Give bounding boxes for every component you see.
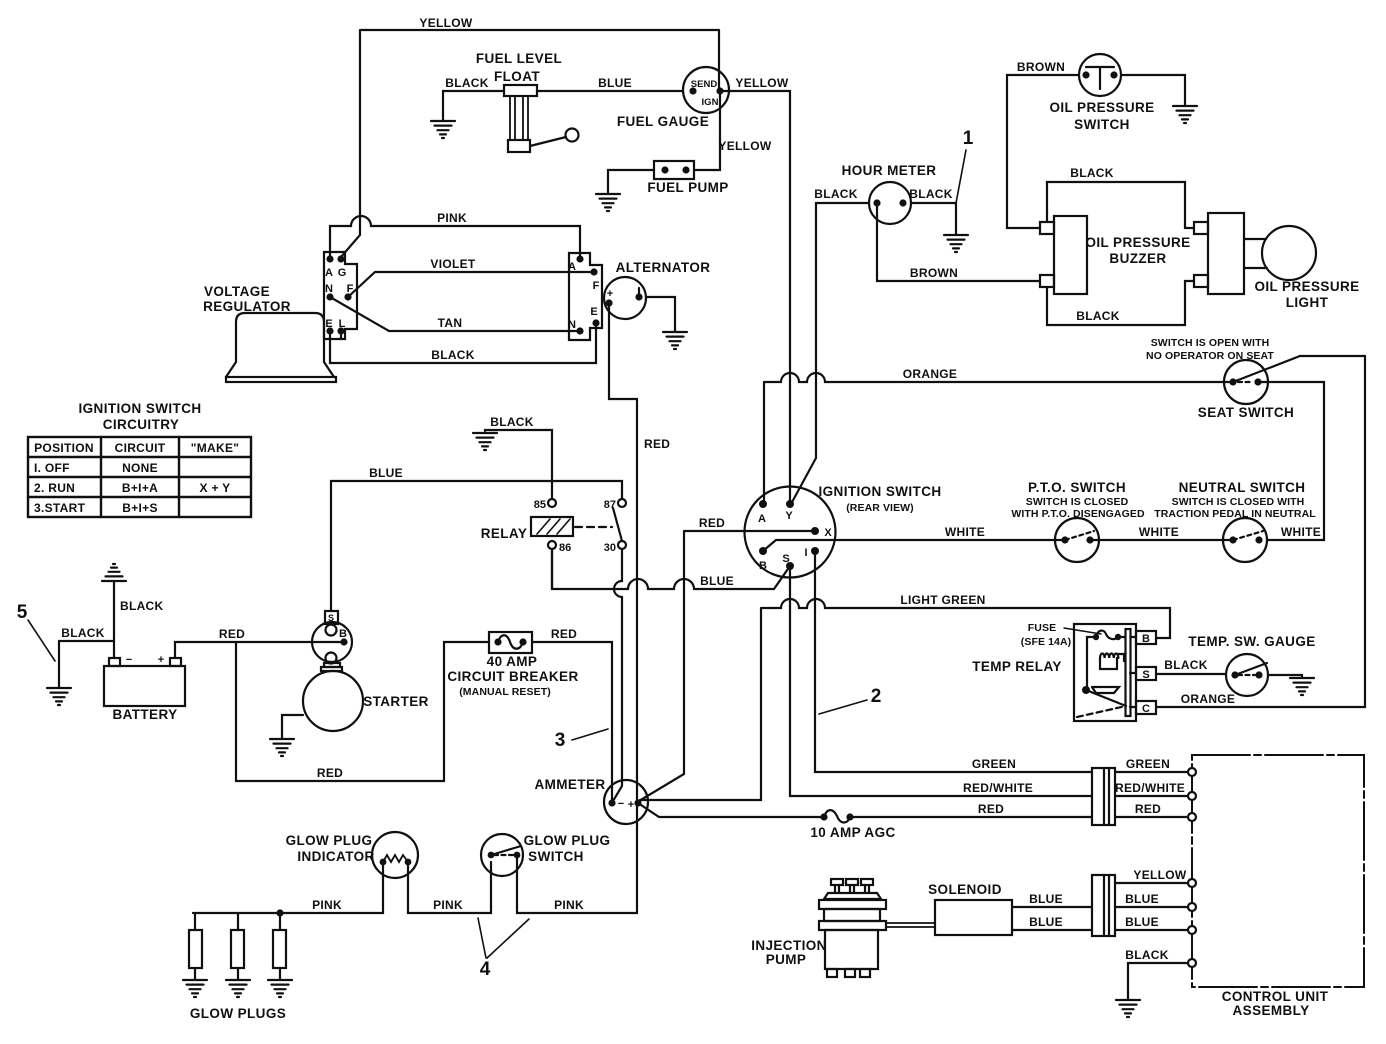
svg-text:STARTER: STARTER	[363, 694, 429, 709]
svg-text:FUEL PUMP: FUEL PUMP	[647, 180, 728, 195]
svg-text:TEMP. SW. GAUGE: TEMP. SW. GAUGE	[1188, 634, 1315, 649]
svg-text:L: L	[339, 318, 346, 330]
temp relay terminal B	[1136, 631, 1156, 644]
svg-text:BLUE: BLUE	[1125, 915, 1159, 929]
ground temp gauge	[1290, 678, 1314, 695]
svg-text:BLUE: BLUE	[1125, 892, 1159, 906]
temp relay coil	[1100, 654, 1124, 670]
relay terminal 30	[618, 541, 626, 549]
svg-text:RELAY: RELAY	[481, 526, 528, 541]
svg-text:S: S	[1142, 669, 1149, 681]
pin N regulator	[326, 293, 333, 300]
pin F regulator	[344, 293, 351, 300]
svg-text:30: 30	[604, 542, 616, 554]
svg-text:N: N	[325, 283, 333, 295]
svg-text:RED: RED	[551, 627, 577, 641]
relay dashed link	[575, 526, 612, 528]
wire BLACK control unit to ground	[1128, 963, 1188, 999]
svg-text:+: +	[158, 654, 164, 666]
fuse pointer	[1064, 628, 1101, 634]
svg-text:ORANGE: ORANGE	[903, 367, 957, 381]
callout 2 pointer	[819, 700, 867, 714]
wire GREEN ignition I to control unit	[815, 551, 1188, 772]
wire relay 86 to blue bus	[551, 549, 553, 589]
fuel gauge G1	[683, 67, 729, 113]
temp relay K2 body	[1074, 624, 1136, 721]
svg-text:BUZZER: BUZZER	[1109, 251, 1166, 266]
svg-text:PINK: PINK	[554, 898, 584, 912]
svg-text:FLOAT: FLOAT	[494, 69, 540, 84]
svg-text:5: 5	[17, 602, 28, 623]
svg-text:SWITCH: SWITCH	[1074, 117, 1130, 132]
control unit pin BLUE1	[1188, 903, 1196, 911]
ground battery negative	[102, 564, 126, 581]
svg-text:PINK: PINK	[312, 898, 342, 912]
ground hour meter switch	[944, 235, 968, 252]
temp relay C stub	[1130, 706, 1136, 708]
temp relay terminal S	[1136, 667, 1156, 680]
svg-text:VIOLET: VIOLET	[430, 257, 476, 271]
relay blade 87-30	[613, 508, 622, 541]
svg-text:BATTERY: BATTERY	[112, 707, 177, 722]
wire RED ammeter + to ignition X	[639, 531, 815, 801]
relay terminal 86	[548, 541, 556, 549]
wire RED ammeter to control unit with fuse	[638, 803, 1188, 817]
svg-text:WHITE: WHITE	[945, 525, 985, 539]
control unit pin RED	[1188, 813, 1196, 821]
wire BLUE float to fuel gauge	[537, 90, 683, 92]
pin A alternator	[576, 255, 583, 262]
svg-text:3: 3	[555, 730, 566, 751]
circuit breaker CB1	[489, 632, 532, 653]
svg-text:WHITE: WHITE	[1281, 525, 1321, 539]
wire BLACK battery negative to ground	[59, 582, 114, 658]
svg-text:FUEL LEVEL: FUEL LEVEL	[476, 51, 562, 66]
svg-text:CIRCUIT: CIRCUIT	[115, 441, 166, 455]
pin A ignition	[759, 500, 767, 508]
glow plug switch S2	[481, 834, 523, 876]
svg-text:CONTROL UNIT: CONTROL UNIT	[1222, 989, 1329, 1004]
fuel level float FL1	[504, 85, 579, 152]
svg-text:BROWN: BROWN	[910, 266, 958, 280]
svg-text:(MANUAL RESET): (MANUAL RESET)	[459, 686, 551, 698]
alternator connector body	[569, 253, 602, 340]
svg-text:A: A	[758, 513, 766, 525]
svg-text:YELLOW: YELLOW	[735, 76, 789, 90]
svg-text:+: +	[607, 288, 613, 300]
svg-text:B+I+A: B+I+A	[122, 481, 158, 495]
svg-text:SOLENOID: SOLENOID	[928, 882, 1002, 897]
ammeter M3	[604, 780, 648, 824]
wire BLUE relay 87 to starter S	[331, 481, 622, 611]
pin N alternator	[576, 327, 583, 334]
pin E regulator	[326, 327, 333, 334]
wire starter case to ground	[282, 715, 303, 738]
svg-text:−: −	[126, 654, 132, 666]
svg-text:BLUE: BLUE	[369, 466, 403, 480]
wire RED battery positive to starter B	[175, 642, 344, 658]
svg-text:TAN: TAN	[438, 316, 463, 330]
svg-text:GREEN: GREEN	[972, 757, 1016, 771]
wire relay 30 to ammeter minus	[613, 549, 622, 801]
svg-text:SWITCH IS CLOSED WITH: SWITCH IS CLOSED WITH	[1172, 496, 1305, 508]
wire BLACK float to ground	[443, 91, 504, 120]
svg-text:FUSE: FUSE	[1028, 622, 1056, 634]
connector J2	[1092, 875, 1115, 936]
temp relay fixed contact	[1092, 687, 1119, 693]
temp relay armature bar	[1126, 629, 1131, 716]
wire WHITE PTO to neutral switch	[1090, 539, 1233, 541]
temp sw gauge S8	[1226, 654, 1268, 696]
svg-text:ALTERNATOR: ALTERNATOR	[616, 260, 711, 275]
svg-text:GLOW PLUG: GLOW PLUG	[286, 833, 373, 848]
hour meter M1	[869, 182, 911, 224]
svg-text:2. RUN: 2. RUN	[34, 481, 75, 495]
svg-text:CIRCUITRY: CIRCUITRY	[103, 417, 180, 432]
pin F alternator	[590, 268, 597, 275]
svg-text:Y: Y	[785, 510, 793, 522]
wire YELLOW fuel gauge to fuel pump	[694, 91, 720, 170]
glow plug R1	[189, 930, 202, 979]
injection pump assembly	[819, 879, 886, 977]
wire fuel pump to ground	[608, 170, 654, 193]
pin E alternator	[592, 319, 599, 326]
wire RED feed loop to circuit breaker	[236, 642, 489, 781]
svg-text:E: E	[590, 306, 597, 318]
svg-text:RED/WHITE: RED/WHITE	[1115, 781, 1185, 795]
svg-text:BLACK: BLACK	[909, 187, 953, 201]
temp relay contact pivot	[1082, 686, 1090, 694]
wire RED breaker to ammeter minus	[532, 642, 612, 799]
svg-text:FUEL GAUGE: FUEL GAUGE	[617, 114, 709, 129]
wire WHITE ignition B to PTO switch	[763, 540, 1065, 551]
pin L regulator	[337, 327, 344, 334]
ground float	[431, 121, 455, 138]
svg-text:TEMP RELAY: TEMP RELAY	[972, 659, 1062, 674]
temp relay S stub	[1130, 672, 1136, 674]
callout 4 pointers	[478, 918, 529, 958]
ground relay 85	[473, 433, 497, 450]
svg-text:G: G	[338, 267, 347, 279]
svg-text:A: A	[325, 267, 333, 279]
fuel pump P1	[654, 161, 694, 179]
wire ORANGE temp relay C to seat switch blade	[1156, 356, 1365, 707]
wire BLACK relay 85 to ground	[485, 430, 552, 499]
svg-text:1: 1	[963, 128, 974, 149]
svg-text:BLUE: BLUE	[598, 76, 632, 90]
temp relay blade dashed	[1077, 706, 1126, 717]
glow plug indicator DS2	[372, 832, 418, 878]
svg-text:S: S	[782, 553, 789, 565]
svg-text:SWITCH IS OPEN WITH: SWITCH IS OPEN WITH	[1151, 337, 1270, 349]
svg-text:A: A	[568, 261, 576, 273]
svg-text:BLUE: BLUE	[700, 574, 734, 588]
wire temp gauge to ground	[1268, 675, 1302, 677]
svg-text:BLACK: BLACK	[61, 626, 105, 640]
wire BLUE solenoid to control unit 2	[1012, 929, 1188, 931]
wire PINK glow plug switch to ammeter	[517, 803, 637, 913]
svg-text:IGNITION SWITCH: IGNITION SWITCH	[819, 484, 942, 499]
svg-text:I: I	[804, 547, 807, 559]
connector J1	[1092, 768, 1115, 825]
wire BLACK hour meter to switch 1 and ground	[911, 203, 956, 234]
wire BLACK buzzer to light top	[1047, 182, 1194, 228]
svg-text:BLACK: BLACK	[120, 599, 164, 613]
relay terminal 87	[618, 499, 626, 507]
pin I ignition	[811, 547, 819, 555]
svg-text:OIL PRESSURE: OIL PRESSURE	[1254, 279, 1359, 294]
svg-text:BLACK: BLACK	[1070, 166, 1114, 180]
svg-text:10 AMP AGC: 10 AMP AGC	[810, 825, 895, 840]
ground control unit	[1116, 1000, 1140, 1017]
svg-text:HOUR METER: HOUR METER	[842, 163, 937, 178]
svg-text:PINK: PINK	[437, 211, 467, 225]
svg-text:B: B	[1142, 633, 1150, 645]
temp relay terminal C	[1136, 701, 1156, 714]
ground starter	[270, 739, 294, 756]
svg-text:OIL PRESSURE: OIL PRESSURE	[1049, 100, 1154, 115]
relay K1 coil	[531, 517, 573, 536]
svg-text:GLOW PLUG: GLOW PLUG	[524, 833, 611, 848]
ground fuel pump	[596, 194, 620, 211]
svg-text:ORANGE: ORANGE	[1181, 692, 1235, 706]
wire BLACK regulator E to alternator E	[330, 323, 596, 363]
wire BROWN hour meter to buzzer	[877, 203, 1040, 281]
wire BLACK hour meter to ignition Y	[791, 203, 869, 504]
svg-text:NONE: NONE	[122, 461, 158, 475]
svg-text:BLUE: BLUE	[1029, 915, 1063, 929]
svg-text:POSITION: POSITION	[34, 441, 94, 455]
svg-text:LIGHT GREEN: LIGHT GREEN	[900, 593, 985, 607]
svg-text:(SFE 14A): (SFE 14A)	[1021, 636, 1072, 648]
pin A regulator	[326, 255, 333, 262]
svg-text:B+I+S: B+I+S	[122, 501, 158, 515]
svg-text:−: −	[618, 798, 624, 810]
svg-text:YELLOW: YELLOW	[718, 139, 772, 153]
svg-text:IGN: IGN	[702, 97, 719, 108]
svg-text:PINK: PINK	[433, 898, 463, 912]
ignition switch S1	[745, 487, 836, 578]
regulator connector body	[324, 252, 357, 339]
svg-text:BLACK: BLACK	[431, 348, 475, 362]
svg-text:+: +	[628, 799, 634, 811]
svg-text:X: X	[824, 527, 832, 539]
voltage regulator VR1	[226, 313, 336, 382]
oil pressure buzzer B1	[1040, 216, 1087, 294]
svg-text:RED: RED	[644, 437, 670, 451]
svg-text:IGNITION SWITCH: IGNITION SWITCH	[79, 401, 202, 416]
svg-text:SWITCH IS CLOSED: SWITCH IS CLOSED	[1026, 496, 1129, 508]
svg-text:BLACK: BLACK	[490, 415, 534, 429]
svg-text:INDICATOR: INDICATOR	[297, 849, 374, 864]
wire YELLOW fuel gauge to ignition Y	[720, 91, 790, 503]
svg-text:BLACK: BLACK	[1125, 948, 1169, 962]
callout 5 pointer	[28, 620, 55, 661]
pin Y ignition	[786, 500, 794, 508]
svg-text:BLACK: BLACK	[814, 187, 858, 201]
svg-text:SEND: SEND	[691, 79, 718, 90]
fuse 10 AMP AGC F2	[820, 810, 853, 822]
svg-text:TRACTION PEDAL IN NEUTRAL: TRACTION PEDAL IN NEUTRAL	[1154, 508, 1316, 520]
ground glow plug R1	[183, 980, 207, 997]
svg-text:4: 4	[480, 959, 491, 980]
svg-text:I. OFF: I. OFF	[34, 461, 70, 475]
svg-text:"MAKE": "MAKE"	[191, 441, 240, 455]
wire BROWN oil switch to buzzer	[1007, 75, 1079, 228]
svg-text:N: N	[568, 319, 576, 331]
pin S ignition	[786, 562, 794, 570]
relay terminal 85	[548, 499, 556, 507]
svg-text:RED: RED	[699, 516, 725, 530]
link injection pump to solenoid	[886, 923, 935, 927]
svg-text:CIRCUIT BREAKER: CIRCUIT BREAKER	[447, 669, 578, 684]
svg-text:OIL PRESSURE: OIL PRESSURE	[1085, 235, 1190, 250]
svg-text:B: B	[759, 560, 767, 572]
fuse SFE 14A F1	[1093, 631, 1136, 641]
glow plug R3	[273, 930, 286, 979]
svg-text:ASSEMBLY: ASSEMBLY	[1233, 1003, 1310, 1018]
pin G regulator	[337, 255, 344, 262]
svg-text:RED: RED	[978, 802, 1004, 816]
svg-text:SEAT SWITCH: SEAT SWITCH	[1198, 405, 1294, 420]
svg-text:YELLOW: YELLOW	[1133, 868, 1187, 882]
svg-text:2: 2	[871, 686, 882, 707]
wire BLUE solenoid to control unit 1	[1012, 906, 1188, 908]
switch blade callout 1	[956, 150, 966, 203]
ground callout 5	[58, 641, 60, 687]
wire YELLOW top bus	[341, 30, 719, 257]
svg-text:C: C	[1142, 703, 1150, 715]
alternator A1	[604, 277, 646, 319]
junction glow plug bus	[276, 909, 283, 916]
control unit pin BLACK	[1188, 959, 1196, 967]
svg-text:BLACK: BLACK	[1076, 309, 1120, 323]
control unit assembly U1	[1192, 755, 1364, 987]
wire YELLOW connector to control unit	[1115, 882, 1188, 884]
ground glow plug R2	[226, 980, 250, 997]
svg-text:RED: RED	[1135, 802, 1161, 816]
temp relay blade solid	[1086, 690, 1126, 706]
svg-text:X + Y: X + Y	[200, 481, 231, 495]
svg-text:AMMETER: AMMETER	[534, 777, 605, 792]
wire VIOLET regulator F to alternator F	[348, 272, 594, 297]
svg-text:E: E	[325, 318, 332, 330]
starter M2	[303, 622, 363, 731]
svg-text:WHITE: WHITE	[1139, 525, 1179, 539]
solenoid L1	[935, 900, 1012, 935]
control unit pin RED-WHITE	[1188, 792, 1196, 800]
PTO switch S6	[1055, 518, 1099, 562]
svg-text:3.START: 3.START	[34, 501, 86, 515]
starter solenoid terminal S	[325, 611, 338, 624]
svg-text:86: 86	[559, 542, 571, 554]
svg-text:BLACK: BLACK	[1164, 658, 1208, 672]
wire PINK indicator to glow plug switch	[408, 862, 491, 913]
wire BLACK temp relay S to temp gauge	[1156, 673, 1226, 675]
neutral switch S7	[1223, 518, 1267, 562]
control unit pin GREEN	[1188, 768, 1196, 776]
svg-text:40 AMP: 40 AMP	[487, 654, 538, 669]
wire BLACK buzzer to light bottom	[1047, 281, 1194, 325]
wire BLUE ignition S to relay 86	[552, 549, 790, 589]
callout 3 pointer	[572, 729, 608, 740]
control unit pin YELLOW	[1188, 879, 1196, 887]
svg-text:RED: RED	[317, 766, 343, 780]
seat switch S5	[1224, 356, 1365, 404]
battery BT1	[104, 658, 185, 706]
wire RED alternator B+ down to ammeter +	[609, 303, 637, 800]
svg-text:RED: RED	[219, 627, 245, 641]
wire LIGHT GREEN ammeter + to temp relay B	[640, 599, 1170, 800]
wire RED-WHITE ignition S to control unit	[790, 566, 1188, 796]
svg-text:LIGHT: LIGHT	[1286, 295, 1329, 310]
svg-text:RED/WHITE: RED/WHITE	[963, 781, 1033, 795]
glow plug R2	[231, 930, 244, 979]
temp relay internal wiring	[1087, 637, 1096, 690]
svg-text:NO OPERATOR ON SEAT: NO OPERATOR ON SEAT	[1146, 350, 1274, 362]
svg-text:GREEN: GREEN	[1126, 757, 1170, 771]
wire ORANGE seat switch to WHITE corner	[1258, 382, 1324, 540]
ground glow plug R3	[268, 980, 292, 997]
svg-text:PUMP: PUMP	[766, 952, 807, 967]
svg-text:(REAR VIEW): (REAR VIEW)	[846, 502, 914, 514]
svg-text:BLACK: BLACK	[445, 76, 489, 90]
wire PINK regulator A to alternator A	[330, 216, 580, 259]
svg-text:WITH P.T.O. DISENGAGED: WITH P.T.O. DISENGAGED	[1011, 508, 1145, 520]
svg-text:F: F	[593, 280, 600, 292]
pin X ignition	[811, 527, 819, 535]
svg-text:YELLOW: YELLOW	[419, 16, 473, 30]
svg-text:85: 85	[534, 499, 546, 511]
svg-text:GLOW PLUGS: GLOW PLUGS	[190, 1006, 286, 1021]
wire alternator case to ground	[646, 297, 675, 331]
svg-text:B: B	[339, 628, 347, 640]
svg-text:SWITCH: SWITCH	[528, 849, 584, 864]
oil pressure switch S4	[1079, 54, 1121, 96]
ground alternator	[663, 332, 687, 349]
svg-text:INJECTION: INJECTION	[751, 938, 827, 953]
wire pin L stub	[340, 331, 342, 339]
wire ORANGE ignition A to seat switch	[764, 373, 1233, 504]
svg-text:REGULATOR: REGULATOR	[203, 299, 291, 314]
wire TAN regulator N to alternator N	[330, 297, 580, 331]
wire PINK glow plugs bus	[193, 865, 383, 930]
control unit pin BLUE2	[1188, 926, 1196, 934]
wire oil switch to ground	[1121, 75, 1185, 105]
svg-text:NEUTRAL SWITCH: NEUTRAL SWITCH	[1179, 480, 1306, 495]
svg-text:BLUE: BLUE	[1029, 892, 1063, 906]
pin B ignition	[759, 547, 767, 555]
ground oil switch	[1173, 106, 1197, 123]
oil pressure light DS1	[1194, 213, 1316, 294]
svg-text:BROWN: BROWN	[1017, 60, 1065, 74]
svg-text:P.T.O. SWITCH: P.T.O. SWITCH	[1028, 480, 1126, 495]
svg-text:VOLTAGE: VOLTAGE	[204, 284, 270, 299]
